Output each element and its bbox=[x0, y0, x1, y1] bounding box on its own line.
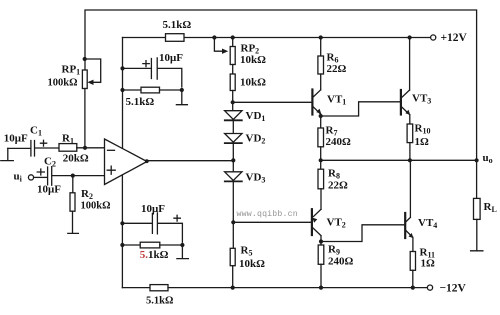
capacitor C2 bbox=[48, 167, 105, 186]
arrow VT3 emitter arrowhead bbox=[405, 110, 410, 115]
svg-text:1Ω: 1Ω bbox=[415, 136, 430, 148]
node VT3 collector junction bbox=[408, 35, 412, 39]
node VT2 base node bbox=[231, 220, 235, 224]
diode VD3 bbox=[225, 172, 242, 181]
arrow VT1 emitter arrowhead bbox=[316, 109, 321, 114]
node VT1 base node bbox=[231, 100, 235, 104]
transistor VT4 bbox=[404, 213, 406, 238]
node R9 bottom junction bbox=[319, 286, 323, 290]
transistor VT2 bbox=[311, 209, 313, 235]
resistor R9 bbox=[318, 245, 324, 264]
svg-text:www.qqibb.cn: www.qqibb.cn bbox=[237, 209, 298, 219]
resistor R11 bbox=[410, 252, 415, 271]
svg-text:10μF: 10μF bbox=[37, 184, 61, 196]
node R7 bottom junction bbox=[319, 158, 323, 162]
ground lower feedback ground bbox=[177, 245, 189, 259]
diode VD1 bbox=[225, 111, 242, 120]
node inverting input junction bbox=[83, 146, 87, 150]
resistor R2 bbox=[72, 176, 74, 193]
node VT1 emitter junction bbox=[319, 114, 323, 118]
capacitor 10uF lower feedback bbox=[122, 213, 182, 242]
node RP2 top junction bbox=[231, 35, 235, 39]
wire ui to C2 bbox=[34, 176, 48, 178]
wire noninverting node down bbox=[121, 175, 123, 288]
node VT2 collector junction bbox=[319, 239, 323, 243]
sign upper fb plus bbox=[142, 60, 150, 67]
resistor RL bbox=[476, 160, 478, 198]
resistor 5.1k bottom bbox=[150, 285, 168, 291]
node lower right junction bbox=[180, 243, 184, 247]
node lower res junction bbox=[120, 243, 124, 247]
ground upper feedback ground bbox=[176, 90, 187, 105]
resistor 5.1k lower feedback bbox=[122, 244, 140, 246]
sign C2 plus bbox=[37, 168, 45, 175]
diode VD2 bbox=[225, 134, 242, 143]
terminal -12V bbox=[427, 285, 432, 290]
node R10 bottom junction bbox=[408, 158, 412, 162]
svg-text:10kΩ: 10kΩ bbox=[240, 77, 266, 89]
ground input C1 ground bbox=[1, 148, 14, 160]
potentiometer RP1 bbox=[82, 70, 87, 89]
node uo junction bbox=[475, 158, 479, 162]
wire inverting node up to +12V rail bbox=[122, 38, 124, 149]
node R11 bottom junction bbox=[411, 286, 415, 290]
svg-text:240Ω: 240Ω bbox=[326, 136, 352, 148]
svg-text:10μF: 10μF bbox=[141, 203, 165, 215]
node fb right junction bbox=[180, 88, 184, 92]
node fb res top junction bbox=[120, 88, 124, 92]
ground RL ground bbox=[471, 219, 483, 250]
potentiometer RP2 bbox=[232, 38, 234, 47]
capacitor 10uF upper feedback bbox=[123, 58, 182, 87]
svg-text:5.1kΩ: 5.1kΩ bbox=[146, 296, 173, 307]
svg-text:+12V: +12V bbox=[441, 32, 468, 44]
wire RP1 wiper bbox=[85, 59, 101, 82]
capacitor C1 bbox=[8, 141, 59, 157]
wire RP2 wiper bbox=[214, 38, 222, 52]
resistor R5 bbox=[230, 248, 235, 265]
svg-text:10μF: 10μF bbox=[4, 133, 28, 145]
transistor VT1 bbox=[311, 90, 313, 115]
svg-text:240Ω: 240Ω bbox=[328, 256, 354, 268]
wire R1 to op-amp inverting input bbox=[77, 147, 105, 149]
svg-text:5.1kΩ: 5.1kΩ bbox=[163, 19, 192, 31]
node noninverting junction bbox=[71, 174, 75, 178]
node op-amp output bbox=[145, 159, 149, 163]
op-amp U1 bbox=[105, 139, 148, 185]
resistor R8 bbox=[320, 160, 322, 169]
svg-text:10kΩ: 10kΩ bbox=[239, 258, 265, 270]
resistor 5.1k upper feedback bbox=[123, 89, 142, 91]
wire +12V rail bbox=[123, 37, 431, 39]
node diode mid junction bbox=[231, 158, 235, 162]
wire VT2 base wire bbox=[233, 221, 311, 223]
resistor R1 bbox=[59, 144, 77, 152]
arrow VT4 emitter arrowhead bbox=[409, 233, 414, 238]
svg-text:10μF: 10μF bbox=[159, 52, 183, 64]
resistor 10k bias bbox=[232, 65, 234, 75]
transistor VT3 bbox=[400, 90, 402, 115]
node R6 top junction bbox=[319, 35, 323, 39]
arrow RP1 wiper arrowhead bbox=[87, 80, 93, 85]
ground R2 ground bbox=[68, 211, 79, 233]
svg-text:5.1kΩ: 5.1kΩ bbox=[126, 96, 155, 108]
wire output rail uo bbox=[321, 159, 477, 161]
arrow VT2 emitter arrowhead bbox=[312, 218, 317, 223]
svg-text:5.1kΩ: 5.1kΩ bbox=[140, 249, 169, 261]
svg-text:22Ω: 22Ω bbox=[328, 180, 348, 192]
wire top feedback rail from RP1 to uo bbox=[85, 10, 477, 160]
resistor R6 bbox=[320, 38, 322, 57]
wire VT1 base wire bbox=[233, 101, 312, 103]
svg-text:10kΩ: 10kΩ bbox=[240, 54, 266, 66]
node RP1 top junction bbox=[83, 57, 87, 61]
svg-text:20kΩ: 20kΩ bbox=[63, 153, 89, 165]
terminal ui input bbox=[28, 175, 33, 180]
svg-text:100kΩ: 100kΩ bbox=[48, 78, 78, 89]
wire bottom -12V rail bbox=[122, 287, 150, 289]
wire VT2 collector to VT4 base bbox=[321, 225, 405, 242]
resistor R7 bbox=[320, 116, 322, 128]
svg-text:1Ω: 1Ω bbox=[421, 258, 436, 270]
sign lower fb plus bbox=[173, 215, 181, 222]
wire op-amp output to diode junction bbox=[147, 160, 233, 162]
node RP2 wiper junction bbox=[212, 35, 216, 39]
svg-text:−12V: −12V bbox=[440, 283, 467, 295]
wire RP1 bottom to inverting node bbox=[84, 89, 86, 148]
node lower cap junction bbox=[120, 221, 124, 225]
sign C1 plus bbox=[40, 140, 48, 147]
node fb cap top junction bbox=[120, 66, 124, 70]
terminal +12V bbox=[431, 35, 436, 40]
svg-text:100kΩ: 100kΩ bbox=[81, 201, 111, 212]
wire VT1 emitter to VT3 base bbox=[321, 102, 401, 116]
resistor R10 bbox=[407, 124, 413, 143]
svg-text:22Ω: 22Ω bbox=[327, 63, 347, 75]
node R5 bottom junction bbox=[231, 286, 235, 290]
resistor 5.1k top feedback bbox=[166, 34, 185, 42]
arrow RP2 wiper arrowhead bbox=[222, 49, 228, 54]
